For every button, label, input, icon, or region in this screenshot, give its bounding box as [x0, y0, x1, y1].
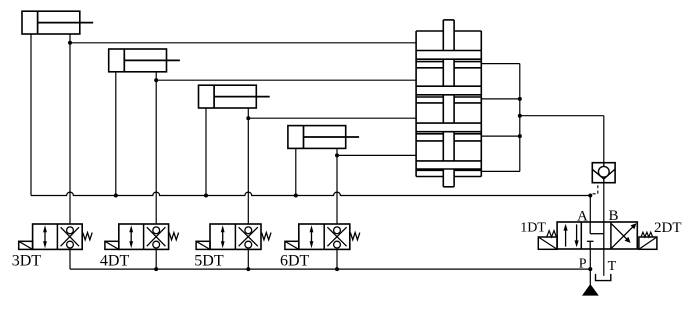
svg-text:3DT: 3DT [12, 253, 42, 270]
svg-text:B: B [609, 208, 619, 224]
svg-text:6DT: 6DT [280, 253, 310, 270]
svg-text:1DT: 1DT [520, 220, 546, 235]
svg-text:T: T [608, 259, 617, 274]
svg-text:5DT: 5DT [194, 253, 224, 270]
svg-text:A: A [577, 208, 588, 224]
svg-text:4DT: 4DT [100, 253, 130, 270]
svg-text:2DT: 2DT [654, 220, 682, 236]
svg-text:P: P [579, 256, 587, 271]
